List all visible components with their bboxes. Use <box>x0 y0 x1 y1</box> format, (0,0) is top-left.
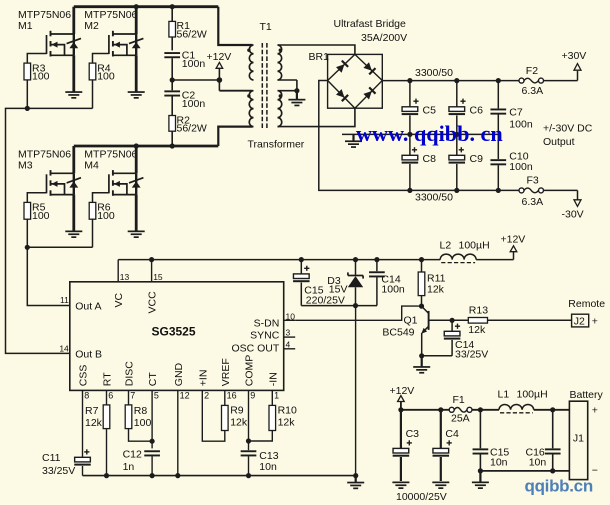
wire secondary top to bridge <box>278 45 355 54</box>
svg-text:6.3A: 6.3A <box>522 85 544 97</box>
wire bottom ground rail <box>83 475 356 477</box>
wire pin 15 VCC <box>152 260 163 283</box>
capacitor C15 10n (filter) <box>473 410 510 471</box>
svg-text:OSC OUT: OSC OUT <box>231 342 279 354</box>
capacitor C15 220/25V <box>293 260 345 307</box>
svg-text:10: 10 <box>286 311 296 321</box>
diode BR1 top-left <box>336 61 348 73</box>
svg-text:10n: 10n <box>529 456 547 468</box>
resistor R11 12k <box>418 260 445 307</box>
wire pin 12 GND <box>178 390 190 400</box>
svg-text:L1: L1 <box>498 389 510 401</box>
wire battery negative rail <box>480 470 569 472</box>
label VC <box>113 292 125 307</box>
svg-text:C9: C9 <box>470 153 484 165</box>
wire gate bus B (R5/R6 to pin 11) <box>27 247 92 305</box>
wire R13 to J2 <box>488 319 572 321</box>
wire emitter to C14 bottom <box>422 355 452 357</box>
wire pin 8 CSS <box>83 390 90 400</box>
label 3300/50 top <box>415 67 453 79</box>
label VREF <box>220 358 232 386</box>
capacitor C13 10n <box>241 399 279 476</box>
svg-text:15V: 15V <box>329 284 348 296</box>
svg-text:2: 2 <box>204 390 209 400</box>
svg-text:+12V: +12V <box>207 51 232 63</box>
wire ground bus to bottom rail <box>355 306 357 476</box>
wire pin 7 DISC <box>129 390 136 400</box>
resistor R7 12k <box>85 399 110 476</box>
resistor R5 100 <box>24 193 50 248</box>
svg-text:6.3A: 6.3A <box>522 196 544 208</box>
svg-text:100: 100 <box>97 210 115 222</box>
svg-text:11: 11 <box>60 295 69 305</box>
wire +12V supply rail <box>118 252 513 260</box>
svg-text:56/2W: 56/2W <box>177 29 207 41</box>
label +/-30V DC Output <box>543 122 593 148</box>
label Transformer <box>248 138 305 150</box>
node C8 bottom <box>407 188 412 193</box>
svg-text:35A/200V: 35A/200V <box>361 32 407 44</box>
svg-text:+: + <box>592 316 598 328</box>
node C15 top <box>299 257 304 262</box>
svg-text:Remote: Remote <box>568 298 605 310</box>
wire secondary bottom to bridge <box>278 108 355 127</box>
label DISC <box>124 361 136 387</box>
watermark qqibb.cn <box>525 477 593 496</box>
svg-text:R7: R7 <box>85 405 99 417</box>
svg-text:12k: 12k <box>427 283 445 295</box>
connector J2 Remote <box>568 298 605 327</box>
transformer T1 core <box>260 21 272 128</box>
transistor M2 MTP75N06 <box>84 7 143 92</box>
resistor R3 100 <box>24 54 50 109</box>
node R11 top <box>419 257 424 262</box>
svg-text:12k: 12k <box>230 417 248 429</box>
ground C15 filter <box>472 472 489 489</box>
svg-text:R10: R10 <box>278 405 297 417</box>
svg-text:1: 1 <box>274 390 279 400</box>
svg-text:10n: 10n <box>259 461 277 473</box>
fuse F3 6.3A <box>519 174 544 208</box>
resistor R8 100 <box>125 399 152 442</box>
node D3 cathode <box>353 257 358 262</box>
svg-text:C11: C11 <box>42 452 61 464</box>
svg-text:C3: C3 <box>406 428 420 440</box>
svg-text:8: 8 <box>84 390 89 400</box>
svg-text:16: 16 <box>227 390 237 400</box>
node C6 bottom <box>454 132 459 137</box>
ground M2 <box>128 91 145 99</box>
resistor R6 100 <box>89 193 115 248</box>
svg-text:S-DN: S-DN <box>254 317 280 329</box>
node COMP rail <box>246 473 251 478</box>
capacitor C5 3300/50 <box>402 81 436 135</box>
node C10 bottom <box>496 188 501 193</box>
connector J1 Battery <box>569 389 603 479</box>
svg-text:100: 100 <box>32 71 50 83</box>
power +12V center tap <box>207 51 232 91</box>
svg-text:VCC: VCC <box>147 291 159 314</box>
wire battery positive rail <box>401 409 570 411</box>
wire GND pin to rail <box>177 399 179 476</box>
ground C4 <box>432 482 449 490</box>
svg-text:7: 7 <box>130 390 135 400</box>
svg-text:BR1: BR1 <box>309 51 330 63</box>
capacitor C9 3300/50 <box>449 134 484 190</box>
svg-text:F2: F2 <box>526 65 538 77</box>
svg-text:-30V: -30V <box>562 208 584 220</box>
svg-text:RT: RT <box>102 372 114 386</box>
transistor M1 MTP75N06 <box>18 7 81 92</box>
node C1/C2 midpoint <box>170 77 175 82</box>
ground M1 <box>65 91 82 99</box>
svg-text:33/25V: 33/25V <box>455 349 488 361</box>
wire positive rail <box>382 71 577 81</box>
capacitor C11 33/25V <box>42 399 91 477</box>
wire secondary center tap <box>278 80 297 91</box>
ground secondary center tap <box>288 91 305 106</box>
wire bottom rail continues <box>410 190 578 199</box>
svg-text:DISC: DISC <box>124 361 136 387</box>
resistor R4 100 <box>89 54 115 109</box>
node ground bus junction <box>353 303 358 308</box>
svg-text:SYNC: SYNC <box>250 330 280 342</box>
svg-text:-IN: -IN <box>267 372 279 386</box>
wire pin 11 Out A stub <box>60 295 101 312</box>
transformer secondary winding 2 <box>278 91 282 127</box>
svg-text:100µH: 100µH <box>517 389 548 401</box>
node C3 top <box>398 407 403 412</box>
inductor L2 100uH <box>440 239 490 262</box>
node center tap junction <box>217 77 223 83</box>
power +30V <box>562 50 587 70</box>
svg-text:12: 12 <box>180 390 190 400</box>
svg-text:Q1: Q1 <box>403 315 417 327</box>
svg-text:Battery: Battery <box>570 389 604 401</box>
ground Q1 emitter <box>413 356 430 374</box>
op-amp U1 SG3525 body <box>70 282 284 391</box>
svg-text:C4: C4 <box>445 428 459 440</box>
node gate bus A junction <box>25 106 30 111</box>
svg-text:R8: R8 <box>134 405 148 417</box>
power +12V (battery input) <box>390 385 415 410</box>
diode BR1 bottom-left <box>336 89 348 101</box>
svg-text:100n: 100n <box>509 118 533 130</box>
ground mid rail <box>345 135 362 148</box>
svg-text:100n: 100n <box>381 284 405 296</box>
svg-text:SG3525: SG3525 <box>152 324 196 338</box>
node Q1 collector <box>419 304 424 309</box>
svg-text:3300/50: 3300/50 <box>415 67 453 79</box>
transistor Q1 BC549 <box>382 306 452 355</box>
transformer primary winding 2 <box>247 91 253 127</box>
label Ultrafast Bridge 35A/200V <box>334 18 408 44</box>
svg-text:Out B: Out B <box>75 348 102 360</box>
node Q1 emitter <box>419 353 424 358</box>
svg-text:Ultrafast Bridge: Ultrafast Bridge <box>334 18 407 30</box>
svg-text:+12V: +12V <box>390 385 415 397</box>
svg-text:Transformer: Transformer <box>248 138 305 150</box>
svg-text:+12V: +12V <box>501 234 526 246</box>
node R8 to CT <box>150 439 155 444</box>
resistor R9 12k <box>202 399 248 442</box>
wire center tap to primary 2 <box>219 90 252 92</box>
diode D3 15V zener <box>327 260 363 306</box>
node M2 drain <box>134 4 139 9</box>
wire pin 1 -IN <box>272 390 279 400</box>
ground main <box>347 476 364 490</box>
capacitor C12 1n <box>123 399 160 476</box>
wire pin 4 OSC OUT <box>231 340 295 355</box>
svg-text:BC549: BC549 <box>382 327 414 339</box>
svg-text:MTP75N06: MTP75N06 <box>84 9 137 21</box>
wire pin 16 VREF <box>225 390 237 400</box>
transformer primary winding 1 <box>247 45 253 80</box>
wire midpoint to +12V tap <box>172 79 219 81</box>
svg-text:M3: M3 <box>18 160 33 172</box>
svg-text:www. qqibb. cn: www. qqibb. cn <box>356 121 503 146</box>
svg-text:100: 100 <box>134 417 152 429</box>
svg-text:+: + <box>592 404 598 416</box>
svg-text:C8: C8 <box>423 153 437 165</box>
wire pin 6 RT <box>107 390 114 400</box>
svg-text:F1: F1 <box>453 394 465 406</box>
resistor R2 56/2W <box>169 114 207 146</box>
svg-text:+/-30V DC: +/-30V DC <box>543 122 593 134</box>
capacitor C6 3300/50 <box>449 81 484 135</box>
svg-text:F3: F3 <box>527 174 539 186</box>
label -IN <box>267 372 279 386</box>
svg-text:+IN: +IN <box>197 370 209 387</box>
svg-text:J2: J2 <box>574 315 585 327</box>
svg-text:Output: Output <box>543 136 575 148</box>
wire pin 14 Out B stub <box>59 344 102 361</box>
node R2 bottom <box>170 143 175 148</box>
watermark www.qqibb.cn <box>356 121 503 146</box>
wire pin 5 CT <box>152 390 159 400</box>
svg-text:R13: R13 <box>469 305 488 317</box>
svg-text:L2: L2 <box>440 239 452 251</box>
svg-text:100: 100 <box>97 71 115 83</box>
power -30V <box>562 200 584 221</box>
power +12V (L2) <box>501 234 526 252</box>
node pin 15 supply <box>149 257 154 262</box>
capacitor C14 33/25V <box>444 320 488 360</box>
wire local ground bus <box>301 305 377 307</box>
fuse F1 25A <box>449 394 472 425</box>
svg-text:25A: 25A <box>451 413 470 425</box>
wire pin 13 VC <box>118 260 129 283</box>
svg-text:12k: 12k <box>278 417 296 429</box>
node C4 top <box>438 407 443 412</box>
wire pin 3 SYNC <box>250 327 295 341</box>
svg-text:1n: 1n <box>123 461 135 473</box>
diode BR1 top-right <box>363 62 375 74</box>
wire gate bus A (R3/R4 to pin 14) <box>6 108 93 353</box>
svg-text:15: 15 <box>153 272 163 282</box>
wire drain rail 1 <box>74 7 253 45</box>
capacitor C2 100n <box>164 80 205 116</box>
svg-text:100n: 100n <box>509 161 533 173</box>
label 3300/50 bottom <box>415 191 453 203</box>
svg-text:6: 6 <box>108 390 113 400</box>
svg-text:100n: 100n <box>182 98 206 110</box>
capacitor C1 100n <box>164 50 205 80</box>
capacitor C14 100n <box>369 260 405 306</box>
label 10000/25V <box>396 491 447 503</box>
capacitor C8 3300/50 <box>402 134 436 190</box>
bridge rectifier BR1 outline <box>309 51 383 108</box>
label GND <box>173 362 185 386</box>
transistor M4 MTP75N06 <box>84 146 143 231</box>
diode BR1 bottom-right <box>363 87 375 99</box>
wire mid rail (0V) <box>342 133 498 135</box>
svg-text:100n: 100n <box>182 58 206 70</box>
svg-text:13: 13 <box>120 272 130 282</box>
node C5 top <box>407 78 412 83</box>
node Q1 base <box>450 318 455 323</box>
capacitor C7 100n <box>490 81 532 135</box>
svg-text:C5: C5 <box>423 105 437 117</box>
node C15 filter top <box>478 407 483 412</box>
node C15 filter bottom <box>478 468 483 473</box>
svg-text:COMP: COMP <box>244 355 256 387</box>
resistor R1 56/2W <box>169 7 207 51</box>
node main ground <box>353 473 358 478</box>
node C7 top <box>496 78 501 83</box>
capacitor C16 10n <box>526 410 561 471</box>
wire pin 9 COMP <box>249 390 256 400</box>
svg-text:12k: 12k <box>85 417 103 429</box>
svg-text:10000/25V: 10000/25V <box>396 491 447 503</box>
svg-text:MTP75N06: MTP75N06 <box>18 9 71 21</box>
transformer secondary winding 1 <box>278 45 282 80</box>
fuse F2 6.3A <box>519 65 544 97</box>
svg-text:56/2W: 56/2W <box>177 123 207 135</box>
node C16 top <box>550 407 555 412</box>
svg-text:M2: M2 <box>84 20 99 32</box>
svg-text:J1: J1 <box>573 433 584 445</box>
svg-text:14: 14 <box>59 344 69 354</box>
svg-text:GND: GND <box>173 362 185 386</box>
svg-text:CSS: CSS <box>78 365 90 387</box>
capacitor C4 10000/25V <box>433 410 459 481</box>
wire pin 2 +IN <box>202 390 209 400</box>
svg-text:33/25V: 33/25V <box>42 465 75 477</box>
wire S-DN to Q1 collector <box>295 306 421 320</box>
svg-text:VC: VC <box>113 292 125 307</box>
node COMP R10 junction <box>246 438 251 443</box>
transistor M3 MTP75N06 <box>18 146 81 231</box>
wire pin 10 S-DN <box>254 311 296 329</box>
label RT <box>102 372 114 386</box>
node secondary center tap <box>294 88 299 93</box>
svg-text:VREF: VREF <box>220 358 232 386</box>
node C9 bottom <box>454 188 459 193</box>
ground C3 <box>392 482 409 490</box>
ground M4 <box>128 231 145 239</box>
svg-text:4: 4 <box>286 340 291 350</box>
svg-text:Out A: Out A <box>75 301 101 313</box>
label CT <box>147 372 159 387</box>
label VCC <box>147 291 159 314</box>
resistor R13 12k <box>452 305 488 336</box>
node GND rail <box>175 473 180 478</box>
node C14 top <box>374 257 379 262</box>
svg-text:3: 3 <box>286 327 291 337</box>
node C5 bottom <box>407 132 412 137</box>
wire drain rail 2 <box>74 127 253 146</box>
svg-text:C6: C6 <box>470 105 484 117</box>
wire bridge negative to bottom rail <box>319 81 410 191</box>
node M4 drain <box>134 143 139 148</box>
capacitor C3 10000/25V <box>393 410 420 481</box>
inductor L1 100uH <box>498 389 548 413</box>
svg-text:220/25V: 220/25V <box>306 294 345 306</box>
node gate bus B junction <box>25 245 30 250</box>
node R1 top <box>170 4 175 9</box>
svg-text:qqibb.cn: qqibb.cn <box>525 477 593 496</box>
node C6 top <box>454 78 459 83</box>
svg-text:9: 9 <box>250 390 255 400</box>
node C16 bottom <box>550 468 555 473</box>
ground M3 <box>65 231 82 239</box>
svg-text:+30V: +30V <box>562 50 587 62</box>
svg-text:−: − <box>592 465 598 477</box>
svg-text:100µH: 100µH <box>459 239 490 251</box>
svg-text:T1: T1 <box>260 21 272 33</box>
svg-text:MTP75N06: MTP75N06 <box>84 148 137 160</box>
svg-text:10n: 10n <box>490 456 508 468</box>
label CSS <box>78 365 90 387</box>
svg-text:M1: M1 <box>18 20 33 32</box>
svg-text:5: 5 <box>154 390 159 400</box>
svg-text:M4: M4 <box>84 160 99 172</box>
svg-text:CT: CT <box>147 372 159 387</box>
svg-text:12k: 12k <box>468 324 486 336</box>
svg-text:R9: R9 <box>230 405 244 417</box>
svg-text:100: 100 <box>32 210 50 222</box>
svg-text:C12: C12 <box>123 448 142 460</box>
node RT rail <box>104 473 109 478</box>
label COMP <box>244 355 256 387</box>
resistor R10 12k <box>249 399 298 442</box>
node CT rail <box>150 473 155 478</box>
label +IN <box>197 370 209 387</box>
capacitor C10 100n <box>490 134 532 190</box>
svg-text:MTP75N06: MTP75N06 <box>18 148 71 160</box>
svg-text:3300/50: 3300/50 <box>415 191 453 203</box>
svg-text:C7: C7 <box>509 107 523 119</box>
